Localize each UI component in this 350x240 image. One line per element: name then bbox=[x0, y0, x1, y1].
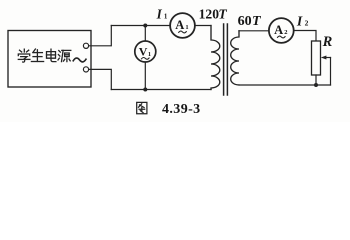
terminal bottom bbox=[83, 67, 88, 72]
svg-text:A: A bbox=[274, 23, 283, 37]
svg-text:4.39-3: 4.39-3 bbox=[162, 102, 201, 117]
ammeter A1 bbox=[170, 13, 195, 38]
svg-text:I: I bbox=[156, 6, 163, 21]
wire R bottom stub bbox=[315, 75, 317, 85]
ammeter A2 bbox=[269, 18, 294, 43]
svg-text:1: 1 bbox=[185, 24, 188, 31]
label 生 bbox=[31, 49, 43, 62]
node top V1 junction bbox=[143, 24, 147, 28]
wire top terminal to top rail bbox=[89, 26, 112, 46]
wire secondary top rail bbox=[239, 30, 269, 32]
node bottom V1 junction bbox=[143, 88, 147, 92]
wire bottom rail bbox=[111, 89, 211, 91]
power supply box 学生电源 bbox=[8, 31, 91, 88]
svg-text:A: A bbox=[175, 18, 184, 32]
resistor R body bbox=[312, 41, 321, 75]
svg-text:R: R bbox=[322, 34, 333, 50]
voltmeter V1 bbox=[135, 41, 156, 62]
svg-text:1: 1 bbox=[164, 12, 168, 20]
AC tilde in box bbox=[73, 58, 86, 62]
transformer core bbox=[224, 24, 228, 95]
rheostat slider arrow bbox=[325, 57, 331, 59]
node R bottom junction bbox=[314, 83, 318, 87]
label 电 bbox=[47, 49, 56, 61]
terminal top bbox=[83, 43, 88, 48]
svg-text:I: I bbox=[296, 14, 303, 29]
svg-text:60: 60 bbox=[238, 14, 252, 29]
svg-text:2: 2 bbox=[305, 19, 309, 28]
wire secondary bottom rail bbox=[239, 84, 331, 86]
label 源 bbox=[58, 50, 71, 61]
wire V1 branch top bbox=[144, 26, 146, 42]
wire V1 branch bottom bbox=[144, 62, 146, 90]
wire top rail bbox=[111, 25, 211, 27]
svg-text:T: T bbox=[218, 6, 227, 21]
svg-text:1: 1 bbox=[148, 51, 151, 58]
svg-text:T: T bbox=[252, 14, 262, 29]
wire slider down bbox=[330, 58, 332, 86]
transformer primary coil 120T bbox=[211, 26, 220, 90]
wire bottom terminal to bottom rail bbox=[89, 69, 112, 89]
svg-text:2: 2 bbox=[284, 29, 287, 36]
svg-text:120: 120 bbox=[199, 6, 220, 21]
label 学 bbox=[18, 49, 30, 62]
wire A2 to R bbox=[294, 31, 316, 42]
svg-text:V: V bbox=[139, 45, 148, 59]
caption 图 bbox=[137, 102, 147, 113]
transformer secondary coil 60T bbox=[231, 31, 239, 85]
